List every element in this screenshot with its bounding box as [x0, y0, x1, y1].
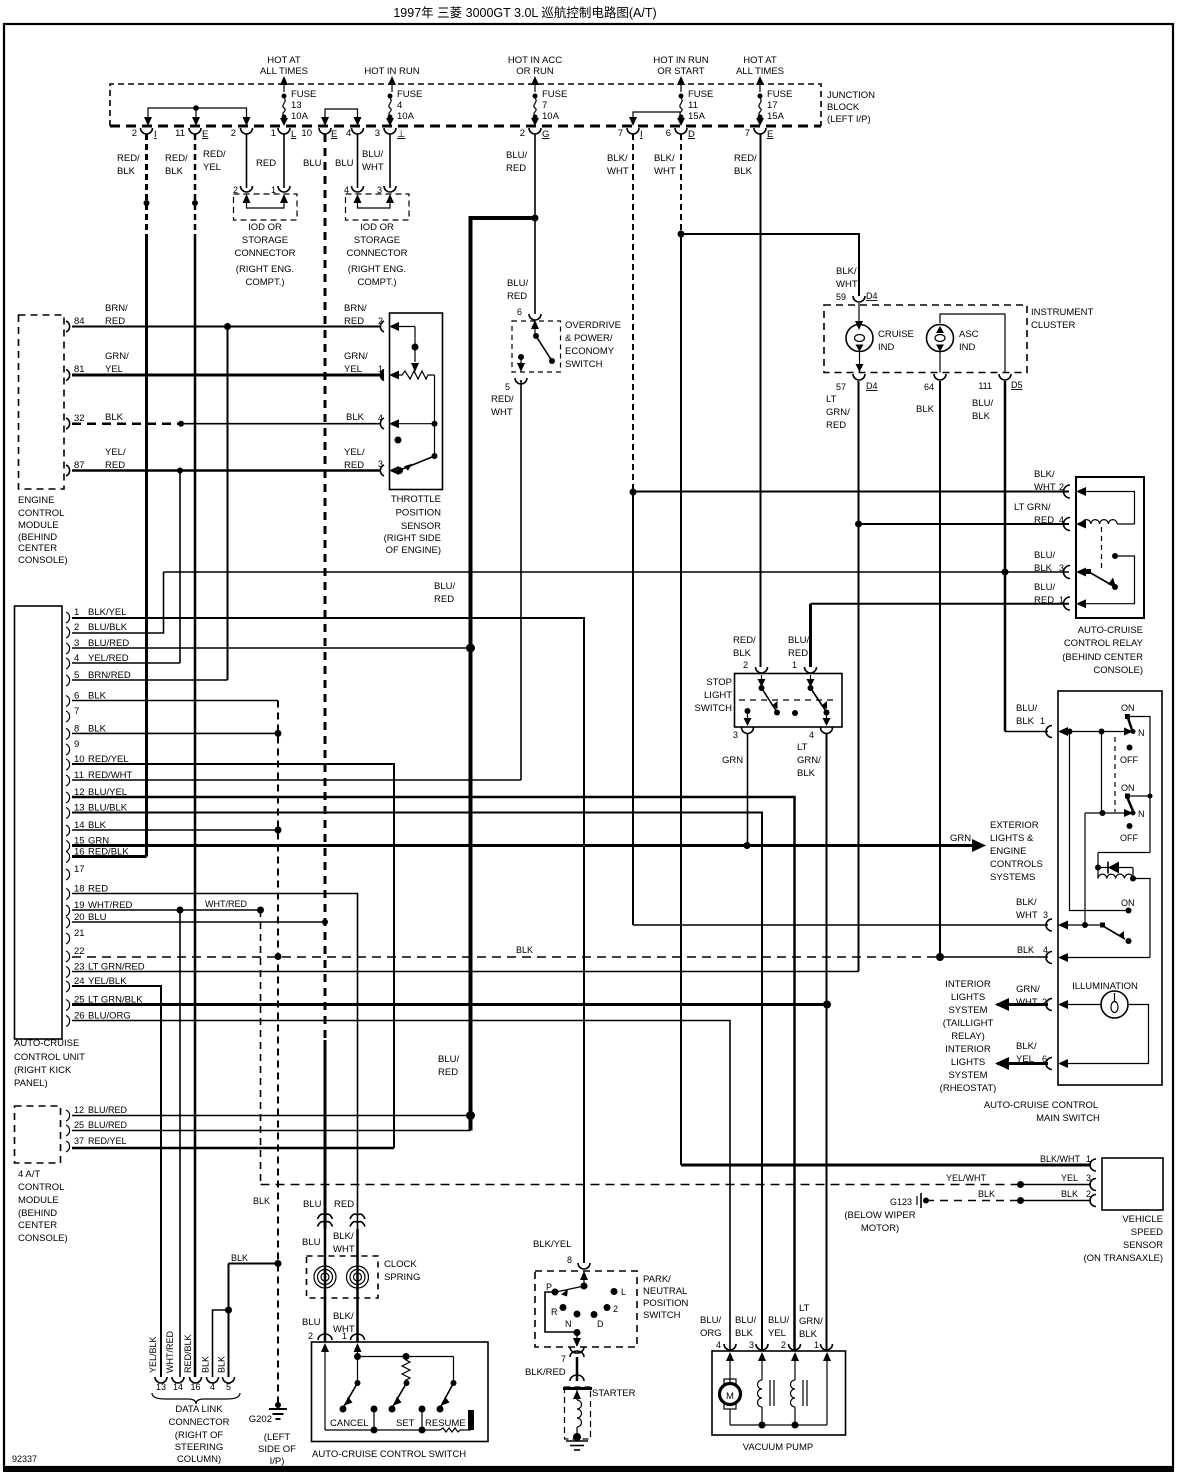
right rail top — [1128, 717, 1151, 853]
svg-text:RED: RED — [105, 316, 125, 327]
OFF 2 — [1127, 823, 1133, 829]
svg-text:D4: D4 — [866, 291, 878, 301]
svg-text:1: 1 — [1059, 595, 1064, 605]
svg-text:BLK: BLK — [916, 404, 935, 415]
svg-text:BLU/RED: BLU/RED — [88, 1105, 128, 1115]
svg-text:84: 84 — [74, 316, 85, 327]
svg-text:RED: RED — [256, 158, 276, 169]
svg-text:(LEFT: (LEFT — [264, 1432, 291, 1443]
clock spring — [307, 1256, 421, 1298]
svg-text:BLU/BLK: BLU/BLK — [88, 622, 128, 633]
wire BLU/WHT pin 3 to IOD2 — [389, 134, 391, 188]
svg-text:P: P — [546, 1282, 552, 1292]
ACU row 15 GRN to exterior lights — [72, 820, 1043, 883]
TPS labels near pins — [344, 303, 383, 471]
svg-text:1997年 三菱 3000GT 3.0L 巡航控制电路图(A: 1997年 三菱 3000GT 3.0L 巡航控制电路图(A/T) — [393, 5, 656, 20]
svg-text:NEUTRAL: NEUTRAL — [643, 1286, 687, 1297]
svg-text:RED/: RED/ — [117, 153, 140, 164]
auto-cruise control relay — [1014, 469, 1144, 676]
svg-text:RED/BLK: RED/BLK — [183, 1334, 193, 1373]
svg-text:(BELOW WIPER: (BELOW WIPER — [844, 1210, 915, 1221]
svg-text:BLK: BLK — [516, 945, 533, 955]
fuse 13 — [280, 89, 316, 126]
svg-text:BLK: BLK — [799, 1329, 818, 1340]
svg-text:RED: RED — [826, 420, 846, 431]
BLU/BLK vertical 111 to relay3/main switch 1 — [1002, 381, 1009, 732]
bottom bus — [325, 1429, 440, 1431]
svg-text:SYSTEMS: SYSTEMS — [990, 872, 1035, 883]
svg-text:ENGINE: ENGINE — [18, 495, 54, 506]
clock spring break connectors — [318, 1214, 366, 1226]
svg-text:AUTO-CRUISE CONTROL: AUTO-CRUISE CONTROL — [984, 1100, 1098, 1111]
svg-text:GRN/: GRN/ — [826, 407, 850, 418]
IOD connector 2 — [344, 185, 409, 288]
svg-text:E: E — [767, 129, 773, 140]
svg-text:ENGINE: ENGINE — [990, 846, 1026, 857]
ECM row 87 YEL/RED — [72, 468, 381, 474]
svg-text:HOT IN ACC: HOT IN ACC — [508, 55, 562, 66]
svg-text:RED/YEL: RED/YEL — [88, 1136, 127, 1146]
relay pin 4 row LT GRN/RED — [859, 523, 1070, 525]
IOD connector 1 — [233, 185, 297, 288]
fuse top arrows — [284, 78, 760, 92]
svg-text:BLK: BLK — [797, 768, 816, 779]
svg-text:BLU/: BLU/ — [438, 1054, 459, 1065]
BLU/RED thick bus — [466, 218, 535, 1131]
ACU row 4 YEL/RED — [72, 662, 180, 664]
svg-text:5: 5 — [226, 1382, 231, 1392]
wire BLK/WHT pin D — [678, 134, 685, 1165]
top wire color labels — [117, 149, 757, 177]
svg-text:BLK: BLK — [972, 411, 991, 422]
svg-text:EXTERIOR: EXTERIOR — [990, 820, 1039, 831]
svg-text:21: 21 — [74, 928, 85, 939]
svg-text:BLK/: BLK/ — [1034, 469, 1055, 480]
svg-text:81: 81 — [74, 364, 85, 375]
svg-text:WHT/RED: WHT/RED — [205, 899, 247, 909]
svg-text:YEL: YEL — [768, 1328, 786, 1339]
svg-text:MAIN SWITCH: MAIN SWITCH — [1036, 1113, 1100, 1124]
svg-text:7: 7 — [618, 128, 623, 139]
svg-text:CONTROL RELAY: CONTROL RELAY — [1064, 638, 1144, 649]
ACU row 2 BLU/BLK — [72, 572, 164, 633]
svg-text:BRN/: BRN/ — [344, 303, 367, 314]
svg-text:VACUUM PUMP: VACUUM PUMP — [743, 1442, 814, 1453]
wires below break to clock spring — [324, 1229, 327, 1342]
riser YEL/RED to ACU row4 — [179, 471, 181, 664]
svg-text:BLU/: BLU/ — [506, 150, 527, 161]
interior lights taillight relay arrow — [943, 979, 1048, 1042]
svg-text:GRN/: GRN/ — [344, 351, 368, 362]
svg-text:INSTRUMENT: INSTRUMENT — [1031, 307, 1093, 318]
RED/WHT wire overdrive pin5 to ACU row 11 — [520, 380, 522, 780]
svg-text:SENSOR: SENSOR — [401, 521, 441, 532]
svg-text:CONSOLE): CONSOLE) — [18, 1233, 68, 1244]
svg-text:WHT: WHT — [607, 166, 629, 177]
svg-text:7: 7 — [542, 100, 547, 111]
svg-text:2: 2 — [613, 1304, 618, 1314]
svg-text:11: 11 — [688, 100, 698, 111]
svg-text:WHT: WHT — [1016, 997, 1038, 1008]
svg-text:32: 32 — [74, 413, 85, 424]
svg-text:RED: RED — [434, 594, 454, 605]
svg-text:N: N — [565, 1319, 572, 1329]
svg-text:HOT AT: HOT AT — [743, 55, 777, 66]
cluster feed BLK/WHT from pin D — [681, 234, 859, 296]
svg-text:BLU: BLU — [303, 1199, 322, 1210]
svg-text:2: 2 — [74, 622, 79, 633]
svg-text:MODULE: MODULE — [18, 1195, 59, 1206]
svg-text:BLK: BLK — [346, 412, 365, 423]
BLK/RED wire to starter — [576, 1357, 579, 1381]
svg-text:AUTO-CRUISE: AUTO-CRUISE — [1078, 625, 1143, 636]
svg-text:92337: 92337 — [12, 1454, 37, 1464]
svg-text:RESUME: RESUME — [425, 1418, 466, 1429]
svg-text:GRN/: GRN/ — [799, 1316, 823, 1327]
svg-text:LIGHT: LIGHT — [704, 690, 732, 701]
ACU row 20 BLU — [72, 921, 325, 923]
svg-text:YEL/: YEL/ — [344, 447, 365, 458]
ACU row 18 RED — [72, 894, 358, 1230]
junction block box — [110, 84, 821, 126]
svg-text:1: 1 — [792, 660, 797, 670]
svg-text:3: 3 — [749, 1340, 754, 1350]
svg-text:BLK/WHT: BLK/WHT — [1040, 1154, 1081, 1164]
svg-text:MODULE: MODULE — [18, 520, 59, 531]
BLK dashed bus to G202 — [275, 701, 282, 1405]
svg-text:JUNCTION: JUNCTION — [827, 90, 875, 101]
svg-text:BLU/: BLU/ — [788, 635, 809, 646]
fuse 17 — [756, 89, 792, 126]
svg-text:WHT: WHT — [654, 166, 676, 177]
svg-text:111: 111 — [978, 381, 992, 391]
wire RED pin 1/L to IOD1 — [283, 134, 285, 188]
svg-text:FUSE: FUSE — [291, 89, 316, 100]
svg-text:WHT: WHT — [1034, 482, 1056, 493]
svg-text:12: 12 — [74, 1105, 84, 1115]
svg-text:(RIGHT OF: (RIGHT OF — [175, 1430, 224, 1441]
svg-text:THROTTLE: THROTTLE — [391, 494, 441, 505]
svg-text:2: 2 — [1059, 482, 1064, 492]
svg-text:GRN/: GRN/ — [797, 755, 821, 766]
relay pin 1 row BLU/RED + stop light riser — [811, 604, 1070, 667]
junction pin arcs row — [141, 128, 767, 134]
ACU row 10 RED/YEL — [72, 764, 394, 1148]
svg-text:DATA LINK: DATA LINK — [175, 1404, 223, 1415]
svg-text:17: 17 — [74, 864, 85, 875]
svg-text:SIDE OF: SIDE OF — [258, 1444, 296, 1455]
motor — [724, 1379, 736, 1384]
auto-cruise control unit box — [14, 606, 85, 1089]
svg-text:MOTOR): MOTOR) — [861, 1223, 899, 1234]
BLU/BLK long row to relay 3 — [164, 571, 1070, 573]
svg-text:ON: ON — [1121, 783, 1135, 793]
WHT/RED riser to DLC 14 — [179, 910, 181, 1377]
pin1 internal row — [1058, 727, 1068, 736]
svg-text:CENTER: CENTER — [18, 1220, 57, 1231]
svg-text:BLK: BLK — [978, 1189, 995, 1199]
svg-text:4: 4 — [397, 100, 402, 111]
svg-text:BLK: BLK — [117, 166, 136, 177]
resume blade — [453, 1357, 455, 1384]
G202 ground — [249, 1402, 296, 1467]
svg-text:CONNECTOR: CONNECTOR — [346, 248, 407, 259]
svg-text:LT: LT — [799, 1303, 810, 1314]
svg-text:CONTROL: CONTROL — [18, 508, 64, 519]
riser BRN/RED to ACU row5 — [227, 327, 229, 681]
svg-text:WHT/RED: WHT/RED — [165, 1331, 175, 1373]
svg-text:1: 1 — [271, 128, 276, 139]
4 A/T control module — [15, 1105, 128, 1244]
svg-text:CANCEL: CANCEL — [330, 1418, 369, 1429]
svg-text:CENTER: CENTER — [18, 543, 57, 554]
svg-text:STARTER: STARTER — [592, 1388, 636, 1399]
svg-text:LT GRN/: LT GRN/ — [1014, 502, 1051, 513]
svg-text:BLK: BLK — [734, 166, 753, 177]
4AT row 25 BLU/RED — [72, 1130, 471, 1132]
svg-text:10: 10 — [301, 128, 312, 139]
svg-text:VEHICLE: VEHICLE — [1122, 1214, 1163, 1225]
svg-text:CONSOLE): CONSOLE) — [1093, 665, 1143, 676]
svg-text:(TAILLIGHT: (TAILLIGHT — [943, 1018, 994, 1029]
svg-text:M: M — [726, 1391, 734, 1402]
junction internal jog 1 — [144, 105, 251, 126]
svg-text:BLK: BLK — [1034, 563, 1053, 574]
LT GRN/RED vertical 57 to relay4/row23 — [855, 381, 862, 972]
relay pin 2 row BLK/WHT — [633, 491, 1069, 493]
svg-text:LT: LT — [797, 742, 808, 753]
svg-text:BLU/: BLU/ — [1016, 703, 1037, 714]
svg-text:BLK/YEL: BLK/YEL — [88, 607, 127, 618]
svg-text:(RIGHT KICK: (RIGHT KICK — [14, 1065, 72, 1076]
svg-text:BLU/: BLU/ — [735, 1315, 756, 1326]
ECM connector box — [18, 315, 68, 566]
BLU/BLK feed row into main switch pin 1 — [1005, 731, 1048, 733]
svg-text:(RIGHT ENG.: (RIGHT ENG. — [236, 264, 294, 275]
svg-text:LIGHTS: LIGHTS — [951, 1057, 985, 1068]
svg-text:BLK/: BLK/ — [333, 1311, 354, 1322]
svg-text:CONNECTOR: CONNECTOR — [234, 248, 295, 259]
svg-text:15A: 15A — [688, 111, 706, 122]
svg-text:BLU: BLU — [303, 158, 322, 169]
BLK vertical 64 to row22 — [939, 381, 941, 958]
wire BLK/WHT pin I2 — [630, 134, 637, 925]
svg-text:6: 6 — [517, 307, 522, 317]
svg-text:CONNECTOR: CONNECTOR — [168, 1417, 229, 1428]
svg-text:COMPT.): COMPT.) — [245, 277, 284, 288]
svg-text:3: 3 — [375, 128, 380, 139]
svg-text:3: 3 — [1043, 910, 1048, 920]
stop light switch — [695, 635, 842, 779]
svg-text:4: 4 — [210, 1382, 215, 1392]
svg-text:I: I — [640, 129, 643, 140]
wire RED/BLK pin E — [192, 134, 198, 1377]
ACU row 12 BLU/YEL — [72, 797, 795, 1351]
svg-text:ORG: ORG — [700, 1328, 722, 1339]
svg-text:BLOCK: BLOCK — [827, 102, 860, 113]
ECM row 81 GRN/YEL — [72, 374, 381, 377]
svg-text:RED/: RED/ — [203, 149, 226, 160]
vehicle speed sensor — [1083, 1158, 1163, 1264]
svg-text:2: 2 — [231, 128, 236, 139]
svg-text:15A: 15A — [767, 111, 785, 122]
svg-text:ASC: ASC — [959, 329, 979, 340]
svg-text:RED: RED — [344, 460, 364, 471]
svg-text:7: 7 — [745, 128, 750, 139]
svg-text:OFF: OFF — [1120, 833, 1138, 843]
svg-text:CRUISE: CRUISE — [878, 329, 914, 340]
ACU row 8 BLK — [72, 732, 278, 734]
svg-text:9: 9 — [74, 739, 79, 750]
svg-text:(RIGHT ENG.: (RIGHT ENG. — [348, 264, 406, 275]
svg-text:ECONOMY: ECONOMY — [565, 346, 615, 357]
svg-text:OFF: OFF — [1120, 755, 1138, 765]
svg-text:⊥: ⊥ — [397, 129, 405, 140]
hot labels — [260, 55, 784, 77]
svg-text:4: 4 — [1059, 515, 1064, 525]
ACU row 13 BLU/BLK — [72, 813, 762, 1352]
ACU row 5 BRN/RED — [72, 679, 228, 681]
ACU pin numbers and wire labels — [74, 607, 145, 1022]
svg-text:BLK: BLK — [735, 1328, 754, 1339]
svg-text:IOD OR: IOD OR — [360, 222, 394, 233]
svg-text:RED/: RED/ — [734, 153, 757, 164]
svg-text:BLU: BLU — [302, 1237, 321, 1248]
svg-text:BLK/: BLK/ — [1016, 897, 1037, 908]
svg-text:COLUMN): COLUMN) — [177, 1454, 221, 1465]
svg-text:BLK: BLK — [1017, 945, 1034, 955]
svg-text:BLK/: BLK/ — [607, 153, 628, 164]
svg-text:FUSE: FUSE — [767, 89, 792, 100]
G123 ground and BLK row to VSS — [844, 1189, 1091, 1234]
svg-text:CONSOLE): CONSOLE) — [18, 555, 68, 566]
vacuum pump — [712, 1344, 846, 1453]
wire BLU pin 4 to IOD2 — [357, 134, 359, 188]
ECM wire labels — [105, 303, 129, 471]
junction internal jog 2 — [321, 109, 362, 126]
svg-text:OF ENGINE): OF ENGINE) — [386, 545, 441, 556]
BLK/WHT row into main switch pin 3 — [633, 924, 1048, 926]
svg-text:ALL TIMES: ALL TIMES — [260, 66, 308, 77]
junction pin labels — [132, 128, 774, 140]
svg-text:3: 3 — [1059, 563, 1064, 573]
svg-text:(BEHIND CENTER: (BEHIND CENTER — [1062, 652, 1143, 663]
svg-text:4: 4 — [809, 730, 814, 740]
ECM row 32 BLK — [72, 421, 381, 427]
svg-text:IND: IND — [878, 342, 895, 353]
svg-text:13: 13 — [156, 1382, 166, 1392]
svg-text:6: 6 — [666, 128, 671, 139]
vacuum pump labels — [700, 1303, 823, 1350]
ACU pin arcs — [66, 612, 70, 1027]
WHT/RED dashed riser to YEL/WHT row — [260, 910, 262, 1185]
diode + coil block — [1098, 852, 1150, 854]
svg-text:64: 64 — [924, 382, 934, 392]
svg-text:SET: SET — [396, 1418, 415, 1429]
svg-text:D: D — [597, 1319, 604, 1329]
svg-text:BLU/: BLU/ — [700, 1315, 721, 1326]
dashed link — [1114, 737, 1116, 812]
svg-text:I/P): I/P) — [270, 1456, 285, 1467]
svg-text:SWITCH: SWITCH — [695, 703, 733, 714]
svg-text:RED: RED — [507, 291, 527, 302]
svg-text:GRN: GRN — [722, 755, 743, 766]
svg-text:YEL: YEL — [105, 364, 123, 375]
svg-text:1: 1 — [74, 607, 79, 618]
svg-text:COMPT.): COMPT.) — [357, 277, 396, 288]
wire BLU bus pin 10/E — [322, 134, 328, 1229]
svg-text:5: 5 — [505, 382, 510, 392]
ACU row 22 BLK dashed — [72, 945, 1048, 961]
svg-text:OVERDRIVE: OVERDRIVE — [565, 320, 621, 331]
svg-text:BLK/YEL: BLK/YEL — [533, 1239, 572, 1250]
svg-text:CONTROLS: CONTROLS — [990, 859, 1043, 870]
svg-text:RED/: RED/ — [165, 153, 188, 164]
svg-text:11: 11 — [175, 128, 185, 139]
svg-text:INTERIOR: INTERIOR — [945, 1044, 991, 1055]
svg-text:WHT: WHT — [836, 279, 858, 290]
svg-text:WHT: WHT — [362, 162, 384, 173]
svg-text:YEL/: YEL/ — [105, 447, 126, 458]
svg-text:BLU/: BLU/ — [768, 1315, 789, 1326]
svg-text:RED/: RED/ — [733, 635, 756, 646]
svg-text:ILLUMINATION: ILLUMINATION — [1072, 981, 1138, 992]
svg-text:ON: ON — [1121, 703, 1135, 713]
svg-text:LIGHTS: LIGHTS — [951, 992, 985, 1003]
svg-text:7: 7 — [561, 1354, 566, 1364]
instrument cluster — [824, 266, 1093, 392]
N 2 row — [1085, 812, 1127, 814]
ACU row 24 YEL/BLK — [72, 986, 161, 1377]
auto-cruise control main switch — [984, 691, 1162, 1124]
svg-text:STOP: STOP — [706, 677, 732, 688]
svg-text:RED: RED — [344, 316, 364, 327]
svg-text:BLU/RED: BLU/RED — [88, 1120, 128, 1130]
svg-text:OR START: OR START — [657, 66, 704, 77]
svg-text:BLU: BLU — [302, 1317, 321, 1328]
ACU row 25 LT GRN/BLK — [72, 1001, 831, 1009]
svg-text:8: 8 — [567, 1255, 572, 1265]
svg-text:BLK: BLK — [165, 166, 184, 177]
svg-text:RED: RED — [788, 648, 808, 659]
svg-text:HOT IN RUN: HOT IN RUN — [653, 55, 708, 66]
svg-text:BLK: BLK — [253, 1196, 270, 1206]
svg-text:SYSTEM: SYSTEM — [948, 1070, 987, 1081]
svg-text:22: 22 — [74, 946, 85, 957]
svg-text:L: L — [291, 129, 296, 140]
svg-text:2: 2 — [308, 1331, 313, 1341]
svg-text:HOT IN RUN: HOT IN RUN — [364, 66, 419, 77]
svg-text:LT: LT — [826, 394, 837, 405]
pin 3 row — [1058, 921, 1068, 930]
svg-text:L: L — [621, 1287, 626, 1297]
svg-text:CLOCK: CLOCK — [384, 1259, 417, 1270]
svg-text:4 A/T: 4 A/T — [18, 1169, 40, 1180]
coil 1 — [758, 1380, 763, 1407]
svg-text:GRN/: GRN/ — [1016, 984, 1040, 995]
svg-text:16: 16 — [190, 1382, 200, 1392]
svg-text:RED: RED — [334, 1199, 354, 1210]
svg-text:IND: IND — [959, 342, 976, 353]
ACU row 23 LT GRN/RED — [72, 971, 859, 973]
svg-text:BLK/RED: BLK/RED — [525, 1367, 566, 1378]
wire RED/BLK pin I — [144, 134, 150, 857]
svg-text:SENSOR: SENSOR — [1123, 1240, 1163, 1251]
ACU row 16 RED/BLK — [72, 855, 147, 858]
svg-text:14: 14 — [173, 1382, 183, 1392]
svg-text:BLK/: BLK/ — [1016, 1041, 1037, 1052]
svg-text:BLK: BLK — [733, 648, 752, 659]
